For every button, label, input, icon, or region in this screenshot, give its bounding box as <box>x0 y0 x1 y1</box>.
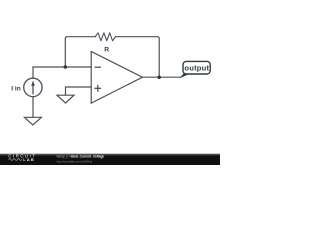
svg-text:henry_k / Ideal_Current_Voltag: henry_k / Ideal_Current_Voltage <box>57 155 105 159</box>
svg-text:I in: I in <box>11 85 21 92</box>
svg-text:R: R <box>104 46 109 53</box>
svg-text:http://circuitlab.com/c4264xd: http://circuitlab.com/c4264xd <box>57 159 93 163</box>
svg-text:LAB: LAB <box>23 157 35 162</box>
svg-text:output: output <box>184 63 209 72</box>
